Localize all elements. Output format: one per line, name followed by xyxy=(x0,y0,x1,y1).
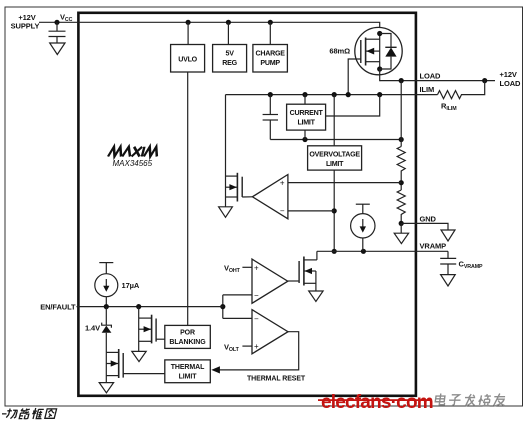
node divider upper junction xyxy=(399,137,404,142)
svg-text:LIMIT: LIMIT xyxy=(297,119,315,127)
svg-text:THERMAL: THERMAL xyxy=(171,364,205,371)
svg-text:LOAD: LOAD xyxy=(420,72,442,81)
svg-text:OVERVOLTAGE: OVERVOLTAGE xyxy=(309,150,360,158)
diode zener 1.4V xyxy=(102,307,112,353)
block CHARGE PUMP xyxy=(253,45,288,73)
wire VOLT minus input xyxy=(223,317,252,319)
transistor power MOSFET circle xyxy=(355,27,402,74)
svg-text:−: − xyxy=(254,291,259,300)
svg-text:UVLO: UVLO xyxy=(178,56,197,64)
ground supply bypass xyxy=(50,43,65,55)
block OVERVOLTAGE LIMIT xyxy=(308,146,362,170)
svg-text:17µA: 17µA xyxy=(122,281,140,290)
svg-text:−: − xyxy=(280,206,285,215)
node current-limit bottom xyxy=(302,137,307,142)
svg-text:+: + xyxy=(254,342,259,351)
node Vcc junction xyxy=(54,20,59,25)
svg-text:BLANKING: BLANKING xyxy=(169,339,206,346)
wire current-limit sense link xyxy=(326,95,380,116)
svg-text:LIMIT: LIMIT xyxy=(179,373,198,380)
wire discharge FET drain xyxy=(316,251,318,260)
node divider top xyxy=(399,78,404,83)
node POR FET branch xyxy=(136,304,141,309)
svg-text:THERMAL RESET: THERMAL RESET xyxy=(247,376,306,383)
block POR BLANKING xyxy=(165,325,211,348)
svg-text:5V: 5V xyxy=(226,50,235,58)
logo MAXIM xyxy=(108,147,159,157)
wire EN/FAULT line xyxy=(77,306,223,308)
wire stub chargepump xyxy=(269,22,271,44)
ground divider bottom xyxy=(400,223,402,233)
transistor thermal-limit MOSFET xyxy=(106,349,165,383)
svg-text:ILIM: ILIM xyxy=(420,85,435,94)
capacitor charge-pump reservoir xyxy=(269,95,271,115)
svg-text:MAX34565: MAX34565 xyxy=(113,159,153,168)
wire RLIM to +12V xyxy=(463,81,485,95)
node vramp current source xyxy=(361,249,366,254)
ground thermal FET xyxy=(99,383,113,393)
wire GND pin line xyxy=(401,223,448,230)
wire UVLO down to POR xyxy=(187,72,189,325)
node divider tap xyxy=(399,180,404,185)
wire ov-comp plus input xyxy=(288,182,401,184)
title chinese bottom-left 功能框图 xyxy=(2,413,7,414)
node ov-comp minus tap xyxy=(332,208,337,213)
svg-text:68mΩ: 68mΩ xyxy=(329,47,350,56)
wire lower gate-drive line xyxy=(270,139,401,141)
resistor RLIM xyxy=(438,91,464,99)
transistor POR blanking MOSFET xyxy=(139,307,165,352)
svg-text:VRAMP: VRAMP xyxy=(420,241,447,250)
transistor ramp discharge MOSFET xyxy=(288,257,317,292)
transistor power MOSFET symbol xyxy=(361,31,383,72)
wire Vcc top rail xyxy=(78,22,379,28)
op-amp VOHT comparator xyxy=(252,259,288,303)
wire LOAD line xyxy=(380,80,495,82)
capacitor CVRAMP xyxy=(447,251,449,258)
wire VOHT minus input xyxy=(223,294,252,296)
svg-text:GND: GND xyxy=(420,215,437,224)
resistor divider lower xyxy=(397,190,405,223)
wire thermal reset path xyxy=(220,332,299,370)
svg-text:REG: REG xyxy=(222,59,237,67)
wire overvoltage feed xyxy=(333,95,335,146)
ground CVRAMP xyxy=(441,275,456,286)
current source ramp charger xyxy=(351,204,375,251)
wire comparator bracket xyxy=(222,295,224,319)
node zener branch xyxy=(104,304,109,309)
svg-text:−: − xyxy=(254,314,259,323)
wire supply to Vcc xyxy=(39,21,78,23)
ground external GND xyxy=(441,230,455,241)
svg-text:PUMP: PUMP xyxy=(260,59,280,67)
node gate rail junctions xyxy=(268,92,273,97)
node EN/FAULT comparator junction xyxy=(220,304,225,309)
block CURRENT LIMIT xyxy=(304,95,306,105)
arrow thermal reset into THERMAL LIMIT xyxy=(211,366,220,373)
ground discharge FET xyxy=(309,291,323,302)
op-amp overvoltage comparator xyxy=(252,175,288,219)
block THERMAL LIMIT xyxy=(165,360,211,383)
diode body diode xyxy=(380,34,397,70)
node rail-5VREG xyxy=(226,20,231,25)
svg-text:CURRENT: CURRENT xyxy=(290,109,324,117)
wire VRAMP line xyxy=(317,250,448,252)
svg-text:SUPPLY: SUPPLY xyxy=(11,22,40,31)
wire overvoltage output down xyxy=(333,170,335,251)
current source 17uA pullup xyxy=(95,263,118,307)
IC boundary box MAX34565 xyxy=(78,13,416,396)
svg-text:1.4V: 1.4V xyxy=(85,324,100,333)
svg-text:POR: POR xyxy=(180,330,195,337)
node divider bottom xyxy=(399,221,404,226)
node vramp junction xyxy=(332,249,337,254)
ground POR FET xyxy=(132,351,146,361)
wire VOLT plus input xyxy=(242,345,252,347)
node rail-chargepump xyxy=(268,20,273,25)
wire ILIM rail xyxy=(226,94,438,96)
block UVLO xyxy=(171,45,205,73)
svg-text:+: + xyxy=(254,263,259,272)
capacitor C-bypass xyxy=(56,22,58,31)
wire FET source to LOAD xyxy=(379,69,381,81)
svg-text:EN/FAULT: EN/FAULT xyxy=(40,302,76,311)
node rail-UVLO xyxy=(186,20,191,25)
svg-text:+12V: +12V xyxy=(500,70,517,79)
ground gate-driver xyxy=(219,207,233,218)
node +12V LOAD xyxy=(482,78,487,83)
wire stub 5VREG xyxy=(227,22,229,44)
wire divider chain xyxy=(400,81,402,147)
svg-text:LIMIT: LIMIT xyxy=(326,160,344,168)
watermark elecfans.com xyxy=(318,392,433,413)
wire ov-comp minus input xyxy=(288,210,334,212)
wire FET gate lead xyxy=(348,59,361,95)
watermark chinese gray 电子发烧友 xyxy=(435,394,507,406)
wire stub UVLO xyxy=(187,22,189,44)
op-amp VOLT comparator xyxy=(252,310,288,354)
svg-text:LOAD: LOAD xyxy=(500,79,522,88)
svg-text:+: + xyxy=(280,178,285,187)
block 5V REG xyxy=(213,45,247,73)
transistor gate-driver MOSFET xyxy=(226,173,253,202)
svg-text:elecfans·com: elecfans·com xyxy=(321,392,433,413)
wire gate-driver drain drop xyxy=(225,95,227,207)
resistor divider upper xyxy=(397,147,405,191)
svg-text:CHARGE: CHARGE xyxy=(255,50,285,58)
wire VOHT plus input xyxy=(242,266,252,268)
